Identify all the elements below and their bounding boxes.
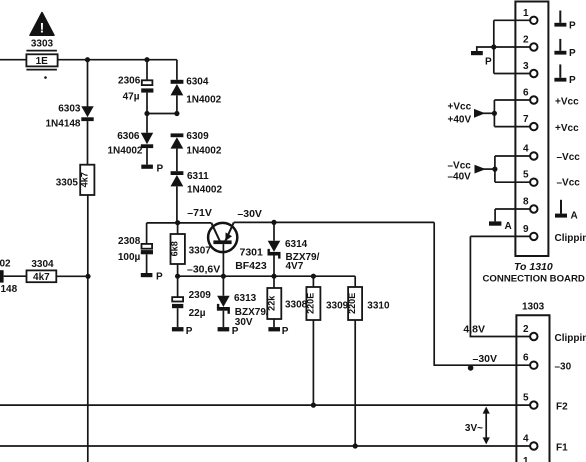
svg-text:9: 9 (523, 224, 529, 235)
svg-text:3307: 3307 (189, 245, 212, 256)
node junction 3304 (85, 274, 90, 279)
warning triangle (30, 13, 54, 36)
node junction rail/2306 (144, 57, 149, 62)
svg-text:–30V: –30V (473, 353, 498, 365)
capacitor 2306 (141, 60, 153, 114)
resistor 3305 4k7 (79, 165, 94, 195)
svg-text:A: A (505, 221, 512, 232)
wire pins 4-5 bus (494, 156, 496, 182)
3V~ arrows (465, 407, 490, 445)
+Vcc arrow (448, 102, 495, 126)
wire top rail left (0, 59, 26, 61)
svg-text:+Vcc: +Vcc (555, 123, 579, 134)
svg-text:1E: 1E (36, 56, 49, 67)
node junction 3310/F1 line (353, 443, 358, 448)
resistor 3303 1E (safety) (26, 51, 57, 70)
node junction rail/3307 (175, 220, 180, 225)
svg-text:Clipping: Clipping (555, 333, 586, 344)
ground P 6313 (218, 326, 239, 337)
svg-text:P: P (186, 326, 193, 337)
capacitor 2309 (172, 276, 183, 327)
svg-text:4V7: 4V7 (286, 261, 304, 272)
svg-text:47µ: 47µ (123, 92, 140, 103)
svg-text:7301: 7301 (240, 247, 264, 259)
svg-text:4k7: 4k7 (33, 272, 50, 283)
svg-text:1N4002: 1N4002 (186, 95, 221, 106)
svg-text:5: 5 (523, 393, 529, 404)
pin 3 (494, 61, 538, 77)
svg-text:6314: 6314 (285, 239, 308, 250)
svg-text:6306: 6306 (117, 131, 140, 142)
svg-text:22k: 22k (266, 295, 276, 311)
svg-text:02: 02 (0, 259, 11, 270)
wire 6303 to 3305 (87, 121, 89, 165)
svg-text:8: 8 (523, 197, 529, 208)
svg-text:–Vcc: –Vcc (557, 152, 581, 163)
svg-text:CONNECTION BOARD: CONNECTION BOARD (483, 274, 585, 285)
svg-text:F1: F1 (556, 442, 568, 453)
pin 7 (494, 114, 537, 130)
svg-text:2: 2 (523, 324, 529, 335)
pin 1 (494, 8, 538, 24)
svg-text:+Vcc: +Vcc (555, 97, 579, 108)
svg-text:P: P (569, 20, 576, 31)
wire top rail right (58, 59, 177, 61)
wire -30,6V node line (178, 275, 356, 277)
diode 6302 partial at edge (0, 259, 27, 296)
ground symbol A pin8 (555, 200, 578, 222)
label 7301 BF423 (235, 247, 267, 272)
resistor 3310 220E (347, 276, 362, 446)
svg-text:1: 1 (523, 456, 529, 462)
pin 9 (470, 224, 537, 240)
ground P stub (pins 1-3) (471, 47, 494, 67)
svg-text:To 1310: To 1310 (514, 261, 553, 273)
wire transistor base down (222, 244, 224, 276)
pin 5 (495, 170, 538, 186)
svg-text:P: P (157, 163, 164, 174)
ground P 6306 (141, 163, 163, 174)
svg-text:!: ! (40, 20, 45, 36)
svg-text:3303: 3303 (31, 39, 54, 50)
connector 1303 box (516, 315, 549, 462)
svg-text:–30V: –30V (237, 208, 262, 220)
wire 3304 to junction (56, 275, 88, 277)
svg-text:A: A (571, 210, 578, 221)
pin 8 (495, 197, 537, 213)
svg-text:3304: 3304 (31, 259, 54, 270)
svg-text:+40V: +40V (448, 114, 472, 125)
svg-text:P: P (569, 75, 576, 86)
svg-text:–30,6V: –30,6V (187, 263, 220, 275)
node junction rail/6314 (271, 220, 276, 225)
diode 6304 (171, 60, 184, 114)
pin 2 (1303) (523, 324, 586, 344)
label 6303 (45, 104, 80, 130)
svg-text:4: 4 (523, 144, 529, 155)
svg-text:1N4002: 1N4002 (186, 146, 221, 157)
node tie left (144, 111, 149, 116)
label 6313 (234, 293, 269, 328)
wire 3305 down to bottom edge (87, 195, 89, 462)
ground P 2308 (141, 272, 163, 283)
diode 6303 (81, 106, 93, 121)
wire F1 line (0, 445, 530, 447)
wire tie 2306/6304 (147, 113, 177, 115)
svg-text:BF423: BF423 (235, 260, 267, 272)
svg-text:3308: 3308 (285, 300, 308, 311)
svg-text:P: P (485, 56, 492, 67)
svg-text:100µ: 100µ (118, 252, 141, 263)
pin 6 (1303) (523, 353, 572, 373)
wire -71V rail left (147, 222, 212, 224)
ground symbol P pin3 (554, 64, 576, 86)
node junction 6314/3308 (271, 274, 276, 279)
label 6309 (186, 131, 221, 156)
ground symbol P pin2 (554, 39, 576, 59)
svg-text:6309: 6309 (186, 131, 209, 142)
connector 1310 box (515, 2, 548, 257)
label 6314 (285, 239, 320, 272)
svg-text:4: 4 (523, 434, 529, 445)
diode 6313 zener (217, 276, 230, 327)
pin 2 (494, 35, 538, 51)
svg-text:7: 7 (523, 114, 529, 125)
svg-text:5: 5 (523, 170, 529, 181)
ground P 3308 (268, 326, 288, 337)
diode 6314 zener (268, 222, 281, 276)
wire -30V rail (234, 221, 434, 223)
svg-text:6311: 6311 (187, 171, 209, 182)
node junction pin2 bus (491, 44, 496, 49)
node junction base/6313 (221, 274, 226, 279)
resistor 3309 220E (306, 276, 321, 405)
svg-text:P: P (232, 326, 239, 337)
wire -30V down to connector (434, 222, 530, 365)
svg-text:3: 3 (523, 61, 529, 72)
svg-text:2308: 2308 (118, 236, 141, 247)
svg-text:–Vcc: –Vcc (448, 161, 472, 172)
svg-text:2: 2 (523, 35, 529, 46)
diode 6309 (171, 133, 184, 171)
svg-text:3305: 3305 (56, 177, 79, 188)
speck (44, 76, 47, 79)
svg-text:6304: 6304 (186, 77, 209, 88)
svg-text:220E: 220E (347, 293, 357, 314)
svg-text:148: 148 (1, 284, 18, 295)
pin 6 (494, 88, 537, 104)
svg-text:22µ: 22µ (189, 308, 206, 319)
-Vcc arrow (448, 161, 495, 183)
svg-text:1303: 1303 (522, 301, 545, 312)
label 6311 (187, 171, 222, 196)
node junction -Vcc (492, 167, 497, 172)
svg-text:3V~: 3V~ (465, 423, 483, 434)
resistor 3308 22k (266, 276, 281, 327)
ground symbol P pin1 (554, 11, 576, 32)
pin 4 (1303) (523, 434, 568, 454)
svg-text:1N4002: 1N4002 (187, 185, 222, 196)
node tie right (174, 111, 179, 116)
capacitor 2308 (141, 223, 153, 273)
svg-text:6: 6 (523, 88, 529, 99)
node junction +Vcc (492, 111, 497, 116)
node junction 3309/F2 line (311, 403, 316, 408)
svg-text:4,8V: 4,8V (463, 324, 485, 336)
diode 6306 (141, 114, 153, 165)
label 2308 (118, 236, 141, 263)
svg-text:1N4002: 1N4002 (107, 145, 142, 156)
svg-text:–30: –30 (555, 362, 572, 373)
svg-text:3310: 3310 (367, 301, 390, 312)
node stray junction (468, 365, 474, 371)
svg-text:–40V: –40V (448, 171, 472, 182)
svg-text:220E: 220E (306, 293, 316, 314)
label 2309 (189, 290, 212, 319)
svg-text:6313: 6313 (234, 293, 257, 304)
resistor 3304 4k7 (27, 270, 57, 283)
svg-text:–Vcc: –Vcc (557, 177, 581, 188)
svg-text:6303: 6303 (58, 104, 81, 115)
svg-text:P: P (156, 272, 163, 283)
svg-text:6k8: 6k8 (170, 241, 180, 256)
svg-text:P: P (569, 48, 576, 59)
wire 6303 branch upper (87, 60, 89, 107)
svg-text:–71V: –71V (187, 207, 212, 219)
wire pins 1-3 bus (493, 20, 495, 73)
label 2306 (118, 76, 141, 103)
svg-text:2309: 2309 (189, 290, 212, 301)
svg-text:P: P (282, 326, 289, 337)
svg-text:6: 6 (523, 353, 529, 364)
ground P 2309 (172, 326, 193, 337)
label 6306 (107, 131, 142, 156)
svg-text:F2: F2 (556, 402, 568, 413)
node junction 3307/2309 (175, 274, 180, 279)
svg-text:2306: 2306 (118, 76, 141, 87)
wire pins 6-7 bus (493, 100, 495, 127)
transistor Q7301 BF423 (208, 222, 237, 252)
svg-text:1N4148: 1N4148 (45, 118, 80, 129)
pin 4 (495, 144, 538, 160)
wire clipping 4,8V run (470, 236, 530, 336)
pin 5 (1303) (523, 393, 568, 413)
svg-text:4k7: 4k7 (79, 172, 89, 187)
svg-text:3309: 3309 (326, 301, 349, 312)
ground A stub (pin 8) (489, 209, 512, 232)
svg-text:1: 1 (523, 8, 529, 19)
resistor 3307 6k8 (170, 223, 185, 276)
wire F2 line (0, 404, 530, 406)
node junction rail/6303 (85, 57, 90, 62)
label 6304 (186, 77, 221, 106)
svg-text:Clipping: Clipping (555, 233, 586, 244)
node junction line/3309 (311, 274, 316, 279)
svg-text:+Vcc: +Vcc (448, 102, 472, 113)
diode 6311 (171, 171, 184, 222)
